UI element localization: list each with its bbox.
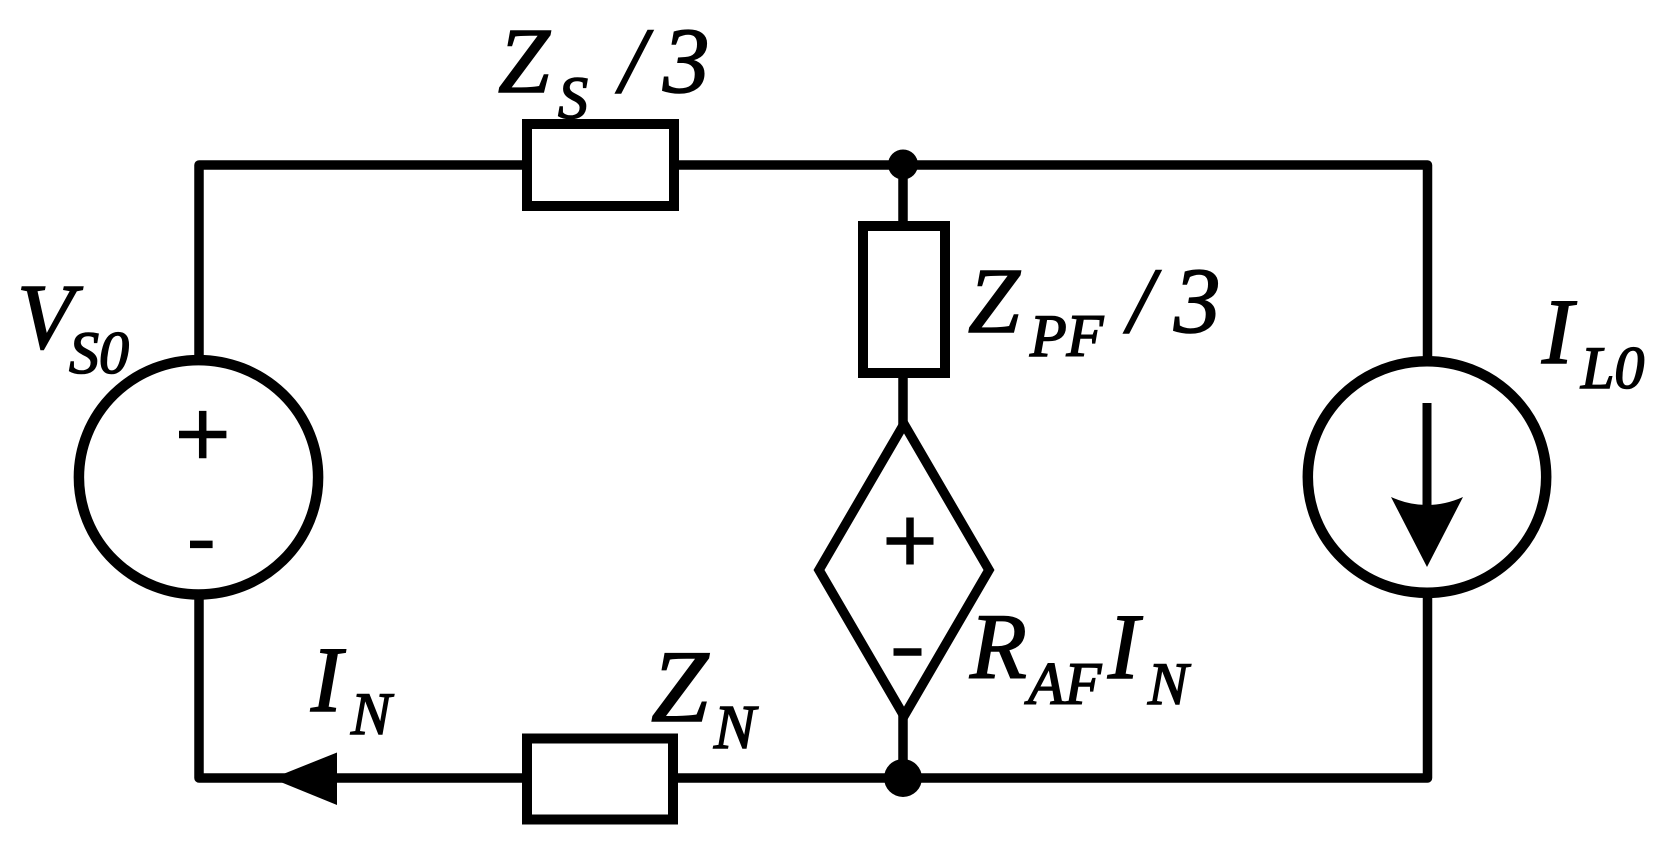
svg-text:N: N [713, 694, 759, 762]
svg-text:I: I [1541, 281, 1577, 384]
svg-text:3: 3 [1173, 250, 1221, 353]
svg-text:N: N [350, 681, 394, 747]
svg-text:Z: Z [651, 630, 710, 744]
svg-text:S: S [558, 65, 588, 131]
svg-text:0: 0 [99, 320, 129, 386]
svg-text:3: 3 [662, 10, 710, 113]
svg-text:S: S [69, 320, 99, 386]
svg-text:I: I [310, 629, 346, 732]
svg-text:PF: PF [1029, 303, 1105, 369]
svg-text:Z: Z [498, 10, 551, 113]
svg-text:Z: Z [968, 250, 1021, 353]
svg-text:AF: AF [1024, 651, 1103, 717]
svg-text:I: I [1107, 596, 1143, 699]
svg-text:N: N [1147, 651, 1191, 717]
svg-text:L0: L0 [1580, 335, 1644, 401]
svg-text:R: R [969, 596, 1027, 699]
